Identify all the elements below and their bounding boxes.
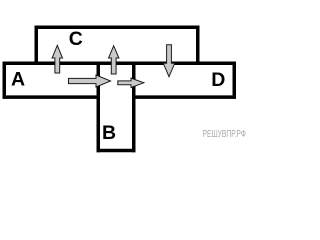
- room A-D (middle rectangle): [3, 62, 237, 99]
- wire: middle right edge: [233, 62, 237, 99]
- room C (top rectangle): [35, 26, 200, 66]
- wire: middle bottom edge right segment: [132, 95, 236, 99]
- svg-text:D: D: [211, 69, 225, 91]
- svg-text:B: B: [102, 122, 116, 144]
- up arrow left (into C): [52, 45, 62, 73]
- right arrow left (A into B): [69, 75, 111, 87]
- wire: B left wall: [97, 63, 101, 152]
- wire: B bottom edge: [97, 149, 136, 153]
- arrows: [52, 45, 175, 88]
- wire: B right wall: [132, 63, 136, 152]
- up arrow middle (into C): [109, 46, 119, 74]
- wire: C top edge: [35, 26, 200, 30]
- wire: C left wall: [35, 26, 39, 66]
- right arrow right (B into D): [118, 78, 144, 87]
- svg-text:РЕШУВПР.РФ: РЕШУВПР.РФ: [203, 129, 247, 140]
- wire: middle top edge: [3, 62, 237, 66]
- wire: C right wall: [196, 26, 200, 66]
- room B (bottom corridor): [97, 63, 136, 152]
- wire: middle bottom edge left segment: [3, 95, 101, 99]
- svg-text:A: A: [11, 69, 25, 91]
- wire: middle left edge: [3, 62, 7, 99]
- down arrow right (out of C): [163, 45, 174, 77]
- svg-text:C: C: [69, 28, 83, 50]
